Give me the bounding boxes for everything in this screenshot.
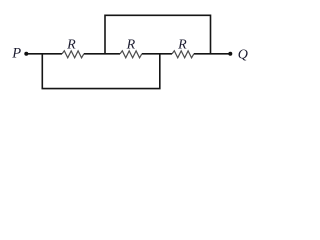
svg-text:Q: Q	[238, 47, 248, 62]
svg-text:P: P	[11, 46, 21, 62]
svg-text:R: R	[177, 38, 187, 53]
svg-text:R: R	[66, 38, 76, 53]
svg-text:R: R	[126, 38, 136, 53]
